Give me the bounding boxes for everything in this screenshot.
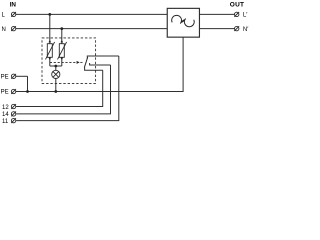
- wire switch NC contact to riser: [87, 56, 119, 59]
- node junction PE1/PE bus: [26, 90, 29, 93]
- terminal PE upper: [11, 74, 16, 79]
- wire N line left: [16, 28, 167, 30]
- svg-text:N′: N′: [243, 27, 249, 33]
- linkage dashes after arrow: [80, 61, 84, 63]
- terminal 12: [11, 104, 16, 109]
- terminal L' out: [234, 12, 239, 17]
- wire varistor1 to bar: [49, 57, 51, 66]
- svg-text:PE: PE: [1, 75, 9, 81]
- terminal N: [11, 26, 16, 31]
- terminal 11: [11, 118, 16, 123]
- switch arm (changeover contact): [84, 57, 87, 68]
- svg-text:IN: IN: [10, 1, 17, 8]
- linkage arrow: [77, 61, 80, 64]
- wire PE1 horizontal: [16, 75, 28, 77]
- wire L line right: [200, 13, 235, 15]
- terminal L: [11, 12, 16, 17]
- wire bar joining varistors: [50, 65, 62, 67]
- svg-text:PE: PE: [1, 90, 9, 96]
- svg-text:14: 14: [2, 112, 9, 118]
- wire terminal 12 run: [16, 70, 103, 106]
- wire N line right: [200, 28, 235, 30]
- wire varistor2 to bar: [61, 57, 63, 66]
- node junction N/varistor2: [60, 27, 63, 30]
- wire varistor1 drop from L: [49, 14, 51, 43]
- wire terminal 14 run: [16, 65, 110, 114]
- wire PE bus with riser to filter: [16, 37, 183, 91]
- svg-text:OUT: OUT: [230, 1, 244, 8]
- filter wave symbol: [172, 15, 186, 22]
- node junction bar center: [54, 65, 57, 68]
- wire indicator to PE bus: [55, 78, 57, 91]
- terminal N' out: [234, 26, 239, 31]
- wire switch NO contact to riser: [90, 63, 111, 65]
- svg-text:12: 12: [2, 105, 9, 111]
- wire bar center to indicator: [55, 66, 57, 70]
- terminal PE lower: [11, 89, 16, 94]
- varistor RV2 disconnect marks: [61, 40, 64, 43]
- indicator lamp (defect signalling): [52, 70, 60, 78]
- filter box U1: [167, 8, 199, 37]
- wire varistor2 drop from N: [61, 29, 63, 44]
- wire PE1 down to PE bus: [27, 76, 29, 91]
- wire terminal 11 run: [16, 56, 119, 121]
- dashed module box: [42, 38, 96, 84]
- node junction L/varistor1: [48, 13, 51, 16]
- svg-text:L: L: [2, 13, 6, 19]
- wire L line left: [16, 13, 167, 15]
- mechanical linkage (dashed): [50, 61, 77, 63]
- svg-text:N: N: [2, 27, 6, 33]
- varistor RV2: [58, 42, 67, 60]
- wire switch common to riser: [85, 67, 103, 70]
- varistor RV1 disconnect marks: [49, 40, 52, 43]
- varistor RV1: [46, 42, 55, 60]
- terminal 14: [11, 112, 16, 117]
- svg-text:L′: L′: [243, 13, 248, 19]
- node junction indicator/PE bus: [54, 90, 57, 93]
- svg-text:11: 11: [2, 119, 9, 125]
